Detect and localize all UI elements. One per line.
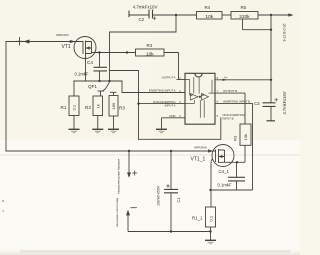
svg-text:4.7mkFx16V: 4.7mkFx16V: [133, 5, 158, 10]
node: R1_1 bottom junction: [209, 230, 211, 232]
svg-text:0.1mkF: 0.1mkF: [75, 72, 89, 77]
svg-text:10k: 10k: [146, 51, 154, 57]
svg-text:свинцово-кислотная: свинцово-кислотная: [115, 198, 119, 227]
wire: VT1 drain to R3: [92, 52, 136, 54]
svg-text:IRFP240N: IRFP240N: [56, 33, 69, 37]
wire: input + terminal to VT1 gate: [6, 41, 83, 43]
resistor R5: [231, 12, 293, 30]
wire: left rail down: [5, 42, 7, 152]
resistor R3 (180) with ground: [108, 96, 119, 133]
pin labels: [149, 75, 250, 120]
node: C4 top junction: [98, 51, 100, 53]
svg-text:R1_1: R1_1: [192, 215, 203, 220]
svg-text:R3: R3: [233, 135, 238, 141]
breaker QF1: [98, 82, 110, 96]
node: input arrow: [24, 40, 29, 43]
capacitor C2: [129, 10, 197, 21]
capacitor C3: [263, 98, 278, 121]
svg-text:4.7mkFx16V: 4.7mkFx16V: [282, 91, 287, 114]
svg-text:C4_1: C4_1: [219, 169, 230, 174]
pin 4 wire + ground: [162, 118, 186, 130]
capacitor C4: [94, 53, 108, 82]
pin numbers: [179, 76, 218, 118]
wire: pin3-pin5 link bottom: [139, 118, 221, 140]
node: VT1_1 source junction: [209, 189, 211, 191]
wire: VT1 source down: [85, 55, 87, 82]
wire: feedback rail from C2 node down-left: [110, 15, 177, 81]
node: plus marker on input wire: [16, 38, 23, 46]
battery plus terminal: [127, 151, 137, 177]
node: R5 tap junction: [270, 29, 272, 31]
svg-text:GND: GND: [169, 114, 175, 118]
svg-text:C3: C3: [254, 101, 260, 106]
svg-text:R1: R1: [61, 105, 67, 110]
op-amp U1 (dual op-amp DIP-8): [185, 73, 215, 124]
svg-text:0.1: 0.1: [208, 215, 213, 221]
svg-text:OUTPUT B: OUTPUT B: [223, 89, 237, 93]
svg-text:Аккумуляторная батарея: Аккумуляторная батарея: [117, 159, 121, 195]
svg-text:QF1: QF1: [88, 84, 97, 89]
svg-text:C2: C2: [139, 17, 145, 22]
resistor R3_1: [240, 124, 251, 145]
svg-text:INPUT A: INPUT A: [165, 103, 176, 107]
resistor R4: [197, 12, 232, 20]
faint scan line: [0, 155, 300, 156]
dust speck marks: [2, 200, 4, 202]
node: C1 top tap: [170, 150, 172, 152]
wire: branch to pin3 column: [110, 71, 139, 140]
svg-text:10k: 10k: [243, 134, 248, 140]
transistor VT1_1: [208, 145, 234, 167]
pin 8 wire: [215, 79, 271, 81]
node: drain wire junction: [126, 51, 128, 53]
svg-text:INPUT B: INPUT B: [223, 117, 234, 121]
wire: R1 top lead: [73, 81, 75, 96]
svg-text:R2: R2: [85, 105, 91, 110]
svg-text:0.1mkF: 0.1mkF: [218, 183, 232, 188]
wire: source row (R1 top to jog): [74, 80, 122, 82]
svg-text:0.1: 0.1: [72, 104, 77, 110]
battery minus terminal: [126, 208, 210, 232]
resistor R2: [92, 96, 103, 133]
node: pin 8 V+ arrow: [223, 79, 228, 81]
svg-text:INVERTING INPUT B: INVERTING INPUT B: [223, 99, 250, 103]
node: V+ rail junction: [270, 79, 272, 81]
svg-text:IRFP240N: IRFP240N: [194, 146, 207, 150]
wire: long bottom wire to VT1_1 gate: [6, 150, 216, 152]
node: R3 top tee: [110, 92, 117, 95]
svg-text:VT1: VT1: [62, 44, 71, 50]
svg-text:V+: V+: [224, 75, 228, 79]
svg-text:INVERTING INPUT A: INVERTING INPUT A: [149, 89, 176, 93]
node: feedback rail junction: [108, 80, 110, 82]
pin 1 stub: [177, 79, 186, 81]
transistor VT1: [70, 37, 96, 59]
svg-text:10mkFx50V: 10mkFx50V: [157, 185, 161, 206]
svg-text:R5: R5: [241, 5, 247, 10]
wire: VT1_1 drain node: [225, 145, 246, 162]
svg-text:C4: C4: [87, 60, 93, 65]
resistor R3 (10k horizontal): [136, 49, 165, 56]
capacitor C1: [164, 151, 178, 232]
wire: jog down to pin2 row: [122, 81, 185, 93]
node: pin3 junction: [137, 102, 139, 104]
svg-text:1k: 1k: [95, 104, 100, 108]
wire: right rail (9-12V net): [270, 15, 272, 103]
svg-text:VT1_1: VT1_1: [191, 156, 206, 162]
svg-text:OUTPUT A: OUTPUT A: [162, 76, 176, 80]
pin 7 wire down to R3_1: [215, 93, 245, 124]
svg-text:220k: 220k: [239, 14, 250, 20]
svg-text:180: 180: [111, 102, 116, 109]
node: battery plus tap: [128, 150, 130, 152]
node: C1 bottom junction: [170, 230, 172, 232]
resistor R1_1: [205, 207, 216, 244]
resistor R1: [69, 96, 80, 133]
svg-text:10k: 10k: [205, 14, 213, 20]
svg-text:R3: R3: [147, 43, 153, 48]
wire: R3h output to pin1: [164, 53, 179, 80]
node: R5 output junction: [270, 14, 272, 16]
pin 6 wire down to source row: [215, 103, 253, 190]
bottom scan band: [0, 248, 300, 255]
capacitor C4_1: [228, 162, 245, 190]
wire: VT1_1 source column: [211, 159, 253, 207]
wire: pin3 row: [139, 103, 186, 105]
svg-text:R3: R3: [119, 105, 125, 110]
svg-text:C1: C1: [176, 197, 181, 203]
node: C4 bottom junction: [98, 80, 100, 82]
node: C2 right junction: [175, 14, 177, 16]
node: VT1_1 drain junction: [236, 161, 238, 163]
svg-text:R4: R4: [205, 5, 211, 10]
op-amp internals: [185, 77, 215, 118]
svg-text:9-12 В стаб: 9-12 В стаб: [282, 23, 286, 41]
